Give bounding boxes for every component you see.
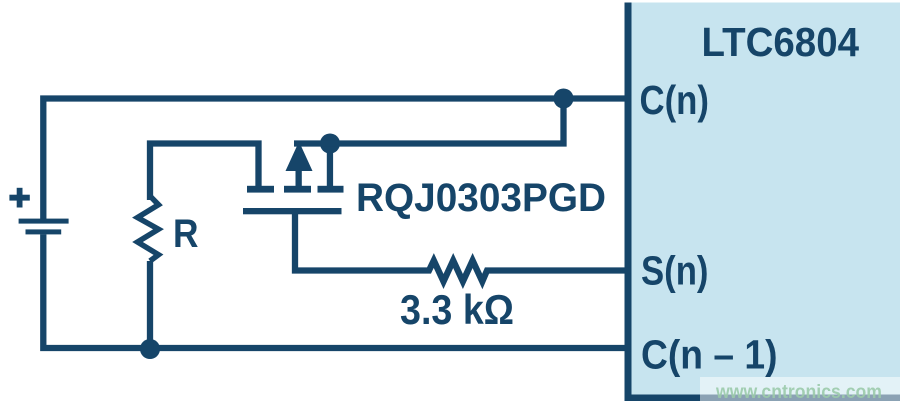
wire: Q1 drain node to C(n) node xyxy=(294,101,564,144)
wire: Q1 drain stub xyxy=(327,143,333,187)
watermark band xyxy=(700,377,900,408)
svg-text:3.3 kΩ: 3.3 kΩ xyxy=(400,286,514,333)
battery BT1 negative plate xyxy=(26,229,62,234)
transistor Q1 drain plate xyxy=(318,186,344,193)
wire: battery + up and top rail to C(n) pin xyxy=(43,99,631,220)
wire: R top to Q1 source xyxy=(150,144,259,201)
svg-text:S(n): S(n) xyxy=(641,248,709,294)
svg-text:LTC6804: LTC6804 xyxy=(702,19,860,65)
transistor Q1 body arrow xyxy=(286,142,313,188)
IC U1 bottom border xyxy=(625,395,900,402)
battery BT1 positive plate xyxy=(19,219,69,224)
wire: R bottom to junction xyxy=(147,261,153,349)
junction dot: Q1 drain node xyxy=(320,134,340,154)
IC U1 left border xyxy=(625,3,632,402)
svg-text:RQJ0303PGD: RQJ0303PGD xyxy=(356,176,606,220)
resistor R body zigzag xyxy=(138,196,159,261)
wire: Q1 gate through 3.3k resistor to S(n) pin xyxy=(295,212,631,282)
svg-text:C(n): C(n) xyxy=(640,77,710,123)
transistor Q1 source plate xyxy=(247,186,274,193)
svg-text:R: R xyxy=(173,212,199,256)
junction dot: C(n) node on top rail xyxy=(554,89,574,109)
svg-text:C(n – 1): C(n – 1) xyxy=(641,332,778,378)
label: battery + polarity mark xyxy=(9,188,29,208)
junction dot: R bottom / bottom rail xyxy=(140,339,160,359)
transistor Q1 gate bar xyxy=(243,208,342,214)
transistor Q1 body plate xyxy=(284,186,311,193)
IC U1 LTC6804 body fill xyxy=(625,3,900,402)
svg-text:www.cntronics.com: www.cntronics.com xyxy=(715,382,882,403)
wire: battery - down and bottom rail to C(n-1) pin xyxy=(43,234,631,348)
